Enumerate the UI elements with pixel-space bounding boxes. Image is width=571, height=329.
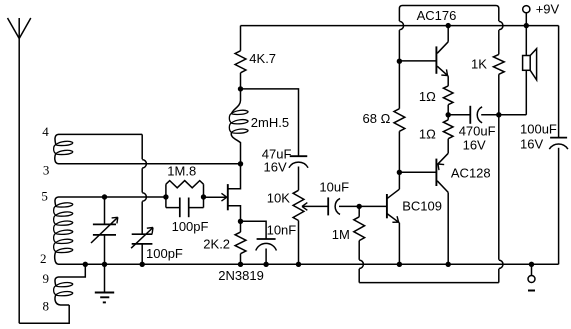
label 1Ω lower [419,127,436,142]
label 2mH.5 [251,115,289,130]
label 68Ω [363,111,391,126]
variable capacitor VC2 100pF [131,228,153,265]
node AC128 collector [446,262,451,267]
label 4 [42,124,49,139]
svg-text:BC109: BC109 [402,198,442,213]
label 16V (470uF) [463,138,486,153]
svg-text:100uF: 100uF [520,121,557,136]
label 1Ω upper [419,89,436,104]
resistor 1M.8 [166,181,204,197]
inductor 2mH.5 [229,89,248,164]
node VC1 top [102,194,107,199]
node AC176 base [397,59,402,64]
terminal +9V [523,6,530,26]
capacitor 47uF 16V [289,156,308,190]
wire right edge [558,26,560,138]
capacitor 10nF [241,221,277,264]
label 2N3819 [218,268,264,283]
node tap2/tap9 [83,262,88,267]
coil L1b (taps 5-2) [54,197,166,264]
svg-text:1Ω: 1Ω [419,89,436,104]
svg-text:100pF: 100pF [172,219,209,234]
svg-text:+9V: +9V [536,2,560,17]
svg-text:AC128: AC128 [451,166,491,181]
node AC176 collector rail [446,23,451,28]
label 10K [267,191,290,206]
svg-text:100pF: 100pF [146,246,183,261]
svg-text:10nF: 10nF [267,223,297,238]
label 1M.8 [167,164,196,179]
capacitor 100pF (parallel) [166,197,204,217]
svg-text:1K: 1K [471,56,487,71]
svg-text:4: 4 [42,124,49,139]
label 100uF [520,121,557,136]
svg-text:1Ω: 1Ω [419,127,436,142]
svg-text:2K.2: 2K.2 [203,236,230,251]
wire AC176 box [399,6,503,62]
node 10nF bottom [263,262,268,267]
svg-text:9: 9 [43,271,50,286]
label 2K.2 [203,236,230,251]
svg-text:2mH.5: 2mH.5 [251,115,289,130]
JFET 2N3819 [228,164,241,222]
svg-text:8: 8 [43,299,50,314]
node 1Ω midpoint [446,112,451,117]
svg-text:4K.7: 4K.7 [249,51,276,66]
svg-text:470uF: 470uF [459,123,496,138]
wire base BC109 [359,205,387,207]
potentiometer 10K [293,190,328,264]
svg-text:2: 2 [40,251,47,266]
svg-text:AC176: AC176 [417,8,457,23]
svg-text:16V: 16V [264,160,287,175]
node 10K bottom [296,262,301,267]
node 1M8 left [163,194,168,199]
label 47uF [262,147,292,162]
resistor 1M [354,206,365,282]
label 8 [43,299,50,314]
node 2K2 bottom [238,262,243,267]
node +9V rail [524,23,529,28]
coil L1c (taps 9-8) [54,264,86,305]
label 16V (100uF) [520,136,543,151]
node BC109 emitter [397,262,402,267]
transistor BC109 [387,172,400,264]
resistor 2K.2 [235,221,246,264]
wire feedback loop [359,115,503,283]
label 2 [40,251,47,266]
resistor 1Ω lower [443,115,453,154]
node BC109 base [357,204,362,209]
wire [19,305,69,323]
label 3 [43,163,50,178]
svg-text:16V: 16V [520,136,543,151]
label 10nF [267,223,297,238]
capacitor 10uF [328,197,359,215]
node drain [238,161,243,166]
label BC109 [402,198,442,213]
svg-text:68 Ω: 68 Ω [363,111,391,126]
svg-text:10uF: 10uF [319,179,349,194]
wire gate [204,193,227,201]
resistor 4K.7 [235,26,246,89]
node VC1 bottom / ground junction [102,262,107,267]
label 100pF (parallel cap) [172,219,209,234]
svg-text:16V: 16V [463,138,486,153]
terminal - output [528,262,535,291]
resistor 1Ω upper [443,86,453,115]
node source [238,219,243,224]
wire tap4 down [142,134,146,234]
label 1M [332,227,350,242]
speaker [499,26,537,115]
ground [95,264,114,302]
transistor AC128 [399,153,448,264]
node 1M8 right / gate [201,194,206,199]
label AC128 [451,166,491,181]
wire bottom rail [59,263,559,265]
resistor 1K [493,54,504,114]
label 9 [43,271,50,286]
variable capacitor VC1 [91,197,118,264]
resistor 68Ω [394,61,405,172]
capacitor 470uF 16V [448,106,499,124]
label 10uF [319,179,349,194]
node AC128 base [397,170,402,175]
label 470uF [459,123,496,138]
svg-text:5: 5 [41,189,48,204]
label 1K [471,56,487,71]
label 5 [41,189,48,204]
label 4K.7 [249,51,276,66]
label 100pF (VC2) [146,246,183,261]
svg-text:2N3819: 2N3819 [218,268,264,283]
wire to 47uF [241,89,299,156]
label +9V [536,2,560,17]
capacitor 100uF 16V [549,138,568,265]
svg-text:10K: 10K [267,191,290,206]
wire top rail [241,25,559,27]
svg-text:3: 3 [43,163,50,178]
node VC2 bottom [140,262,145,267]
svg-text:1M.8: 1M.8 [167,164,196,179]
transistor AC176 [399,26,448,86]
node 4K7 bottom [238,86,243,91]
label 16V (47uF) [264,160,287,175]
label AC176 [417,8,457,23]
antenna [8,18,31,323]
svg-text:1M: 1M [332,227,350,242]
node output [496,112,501,117]
coil L1a (taps 4-3) [54,134,241,163]
